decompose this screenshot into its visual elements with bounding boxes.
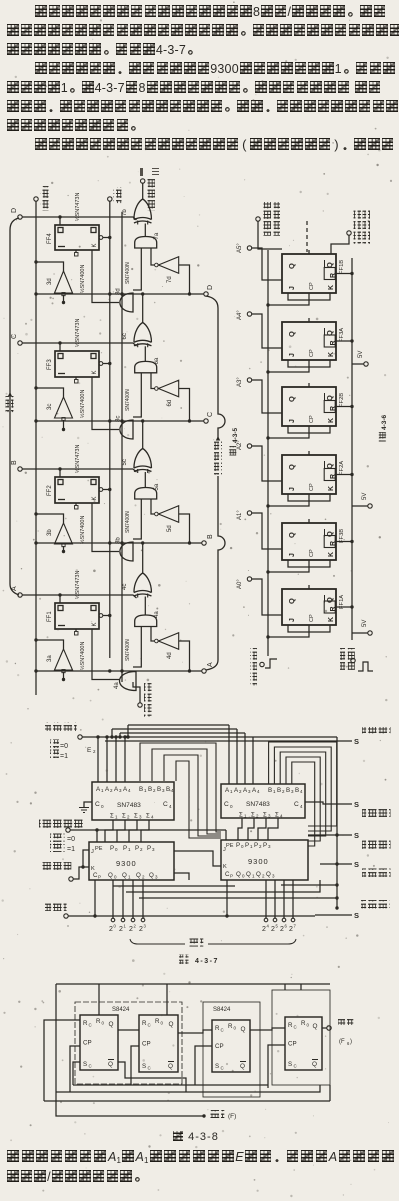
wire from upper-left terminal [258, 221, 282, 249]
svg-text:E: E [87, 747, 92, 754]
svg-text:S: S [354, 737, 359, 746]
nand gate 8d [120, 293, 133, 312]
reset waveform symbol [358, 662, 373, 671]
wire and-to-xor [144, 224, 146, 237]
svg-text:B: B [157, 786, 161, 793]
wire FF2A J K pins [288, 494, 330, 501]
svg-text:B: B [207, 534, 214, 539]
svg-text:Q: Q [149, 872, 154, 879]
nand gate 8c [120, 420, 133, 439]
output bus bracket 输出 [10, 218, 19, 595]
flip-flop FF1 [55, 603, 99, 629]
svg-text:2: 2 [271, 926, 275, 933]
svg-text:Q: Q [241, 1026, 246, 1033]
svg-text:SN7400N: SN7400N [125, 639, 131, 661]
svg-text:PE: PE [226, 843, 234, 849]
svg-text:0: 0 [161, 1021, 164, 1026]
wire and gate left input [133, 499, 141, 539]
wire input 3 right circuit [252, 446, 283, 481]
svg-text:C: C [294, 1064, 297, 1069]
5V terminal 3 [368, 631, 372, 635]
svg-text:SN7400N: SN7400N [125, 262, 131, 284]
svg-text:P: P [254, 842, 258, 849]
terminal 控制加减 [45, 723, 77, 732]
svg-text:4a: 4a [154, 611, 160, 618]
svg-text:R: R [330, 273, 337, 278]
wire inverter 7d input [151, 248, 155, 265]
inverter 3d [55, 271, 73, 293]
output wire A [36, 670, 202, 672]
wire and-to-xor [144, 472, 146, 488]
svg-text:1: 1 [230, 789, 233, 794]
reset waveform terminal [351, 658, 355, 662]
svg-text:Q: Q [287, 464, 296, 470]
svg-text:S: S [288, 1061, 292, 1068]
svg-text:1: 1 [250, 844, 253, 849]
svg-text:C: C [294, 1025, 297, 1030]
label 选位信出 on bus [212, 440, 222, 476]
clock waveform terminal [260, 662, 264, 666]
svg-text:CP: CP [142, 1041, 151, 1048]
svg-text:Q: Q [246, 871, 251, 878]
and gate 5a [135, 488, 157, 500]
flip-flop cell 3 S8424 [212, 1020, 250, 1072]
svg-text:Σ: Σ [146, 813, 150, 820]
label 接下一级 5 [361, 900, 390, 909]
svg-text:4a: 4a [114, 682, 120, 689]
svg-text:Q: Q [287, 331, 296, 337]
svg-text:K: K [328, 418, 335, 423]
svg-text:Σ: Σ [239, 812, 243, 819]
svg-text:FF3: FF3 [47, 359, 53, 370]
svg-text:2: 2 [139, 926, 143, 933]
wire FF1A R pin to 5V rail [336, 606, 352, 608]
svg-text:B: B [268, 787, 272, 794]
wire cp chain left [70, 1046, 80, 1092]
svg-text:=0: =0 [60, 743, 68, 750]
svg-text:2: 2 [289, 926, 293, 933]
svg-text:6c: 6c [122, 333, 128, 339]
svg-text:FF2A: FF2A [339, 461, 345, 475]
svg-text:2: 2 [239, 789, 242, 794]
svg-text:K: K [328, 617, 335, 622]
gate column rail wire [121, 212, 123, 682]
svg-text:Q: Q [122, 872, 127, 879]
svg-text:R: R [330, 541, 337, 546]
output drops right [265, 880, 267, 918]
wire input B [22, 469, 137, 472]
wire S2 carry [305, 802, 352, 804]
svg-text:5d: 5d [167, 525, 173, 532]
wire inverter base [63, 420, 65, 430]
svg-text:A: A [11, 586, 18, 591]
svg-text:2: 2 [282, 789, 285, 794]
svg-text:CP: CP [309, 483, 315, 491]
wire FF FF2 K feedback [92, 503, 119, 552]
flip-flop FF4 Qbar bubble [99, 236, 103, 240]
svg-text:B: B [277, 787, 281, 794]
svg-text:1: 1 [124, 924, 127, 929]
caption 图 4-3-5 [228, 446, 238, 456]
svg-text:6d: 6d [167, 400, 173, 407]
terminal upper-left 至下级加法输入端 [256, 217, 260, 221]
svg-text:K: K [92, 496, 98, 500]
inverter 6d [158, 380, 178, 397]
caption 图 4-3-7 [179, 955, 189, 965]
inverter 4d [158, 633, 178, 650]
wire FF2B R pin to 5V rail [336, 406, 352, 408]
svg-text:4: 4 [169, 804, 172, 809]
svg-text:½SN7400N: ½SN7400N [79, 390, 86, 418]
svg-text:(F): (F) [228, 1113, 236, 1120]
terminal 信号输入 [42, 862, 71, 871]
wire S4 [320, 863, 352, 865]
svg-text:PE: PE [95, 846, 103, 852]
svg-text:A4°: A4° [237, 310, 243, 320]
wire inverter base [63, 672, 65, 680]
inverter 7d [158, 257, 178, 274]
label 输出 (F6) [338, 1017, 353, 1025]
svg-text:J: J [223, 847, 226, 853]
svg-text:C: C [207, 412, 214, 417]
svg-text:S: S [354, 800, 359, 809]
wire sc bottoms [73, 1062, 80, 1085]
xor gate 6c [134, 323, 152, 346]
wire bottom run 2 [56, 1085, 320, 1092]
wire FF FF3 K feedback [92, 377, 119, 430]
wire under-register runs [113, 885, 235, 887]
wire inverter 6d output [179, 389, 190, 422]
svg-text:3d: 3d [47, 278, 53, 285]
wire top run bottom circuit [56, 983, 330, 985]
wire input 2 right circuit [252, 380, 283, 413]
svg-text:K: K [328, 285, 335, 290]
wire FF2B J K pins [288, 426, 330, 433]
svg-text:0: 0 [114, 924, 117, 929]
input terminal 5 right circuit [247, 577, 251, 581]
svg-text:CP: CP [83, 1040, 92, 1047]
binary input terminal 二进输入 [138, 703, 142, 707]
output brace 输出 [130, 939, 185, 944]
wire from upper-right terminal [331, 235, 349, 254]
wire FF FF4 K feedback [92, 250, 119, 303]
wire S3 [308, 834, 352, 836]
wire J K bracket [83, 850, 89, 867]
svg-text:5c: 5c [122, 459, 128, 465]
svg-text:4: 4 [267, 924, 270, 929]
svg-text:5a: 5a [154, 483, 160, 490]
wire and gate left input [133, 373, 141, 417]
svg-text:P: P [236, 842, 240, 849]
wire FF3A R pin to 5V rail [336, 340, 352, 342]
5V terminal 1 [364, 362, 368, 366]
svg-text:FF3A: FF3A [339, 328, 345, 342]
svg-text:Σ: Σ [251, 812, 255, 819]
wire maze right nested [269, 742, 337, 826]
svg-text:R: R [142, 1020, 147, 1027]
svg-text:CP: CP [215, 1043, 224, 1050]
wire xor output [142, 543, 144, 573]
package box S8424 first (dashed) [75, 1002, 182, 1084]
wire and gate left input [133, 627, 141, 668]
svg-text:Q: Q [236, 871, 241, 878]
svg-text:R: R [301, 1020, 306, 1027]
svg-text:): ) [350, 1039, 352, 1045]
svg-text:Q: Q [240, 1063, 245, 1070]
svg-text:½SN7473N: ½SN7473N [74, 319, 81, 347]
wire input C [22, 343, 137, 346]
right bus vertical [336, 746, 338, 908]
svg-text:K: K [328, 486, 335, 491]
svg-text:P: P [110, 845, 114, 852]
svg-text:1: 1 [128, 847, 131, 852]
svg-text:2: 2 [109, 926, 113, 933]
svg-text:FF2B: FF2B [339, 393, 345, 407]
wire and-to-xor [144, 346, 146, 361]
nand gate 8b [120, 542, 133, 561]
inverter 3c [55, 397, 73, 418]
svg-text:1: 1 [144, 788, 147, 793]
svg-text:CP: CP [309, 415, 315, 423]
ground symbol [84, 802, 92, 807]
svg-text:3: 3 [268, 844, 271, 849]
svg-text:3: 3 [162, 788, 165, 793]
wire cp cell3 [195, 1046, 212, 1085]
wire left outer [44, 1020, 80, 1101]
svg-text:A0°: A0° [237, 579, 243, 589]
svg-text:S: S [215, 1063, 219, 1070]
svg-text:C: C [224, 801, 229, 808]
wire xor output [142, 183, 144, 199]
wire bottom run 1 [73, 1084, 268, 1086]
wire clock stub [36, 514, 64, 523]
wire FF1B CP pin [268, 293, 309, 305]
svg-text:J: J [289, 487, 296, 491]
svg-text:4d: 4d [167, 652, 173, 659]
svg-text:R: R [228, 1023, 233, 1030]
svg-text:K: K [91, 866, 95, 872]
output wire B [36, 542, 202, 544]
wire clock riser left [94, 880, 96, 916]
svg-text:3: 3 [139, 815, 142, 820]
flip-flop FF1A [282, 589, 336, 625]
svg-text:3: 3 [248, 789, 251, 794]
wire input 4 right circuit [252, 513, 283, 549]
wire FF2A CP pin [268, 494, 309, 506]
svg-text:5V: 5V [362, 620, 368, 627]
svg-text:R: R [330, 406, 337, 411]
svg-text:0: 0 [241, 844, 244, 849]
svg-text:C: C [89, 1023, 92, 1028]
terminal 钟脉冲 [45, 903, 67, 912]
wire input D [22, 217, 60, 225]
output wire C [36, 420, 204, 422]
svg-text:C: C [221, 1066, 224, 1071]
wire cp cell4 [268, 1045, 285, 1088]
svg-text:=1: =1 [67, 846, 75, 853]
svg-text:B: B [148, 786, 152, 793]
svg-text:K: K [328, 552, 335, 557]
svg-text:9300: 9300 [116, 859, 137, 868]
svg-text:=0: =0 [67, 836, 75, 843]
svg-text:4-3-5: 4-3-5 [232, 427, 239, 443]
flip-flop FF3A [282, 322, 336, 360]
flip-flop FF1B [282, 254, 336, 293]
svg-text:P: P [245, 842, 249, 849]
svg-text:½SN7400N: ½SN7400N [79, 516, 86, 544]
svg-text:9300: 9300 [248, 857, 269, 866]
svg-text:3b: 3b [47, 529, 53, 536]
svg-text:2: 2 [142, 875, 145, 880]
label 接下一级 2 [362, 809, 391, 818]
svg-text:FF1: FF1 [47, 611, 53, 622]
svg-text:J: J [289, 618, 296, 622]
svg-text:1: 1 [115, 815, 118, 820]
svg-text:2: 2 [119, 926, 123, 933]
svg-text:C: C [294, 801, 299, 808]
and gate 7a [135, 237, 157, 249]
svg-text:1: 1 [252, 874, 255, 879]
svg-text:3a: 3a [47, 655, 53, 662]
clear input terminal 清除 [108, 197, 112, 201]
svg-text:5V: 5V [358, 351, 364, 358]
svg-text:Q: Q [312, 1061, 317, 1068]
svg-text:K: K [92, 622, 98, 626]
svg-text:0: 0 [102, 1021, 105, 1026]
svg-text:2: 2 [127, 815, 130, 820]
input terminal D [18, 215, 22, 219]
svg-text:CP: CP [309, 614, 315, 622]
svg-text:3: 3 [272, 874, 275, 879]
wire maze left nested [140, 743, 221, 832]
svg-text:S8424: S8424 [213, 1007, 231, 1013]
svg-text:0: 0 [114, 875, 117, 880]
svg-text:½SN7473N: ½SN7473N [74, 571, 81, 599]
svg-text:J: J [289, 353, 296, 357]
svg-text:P: P [135, 845, 139, 852]
wire input 1 right circuit [252, 314, 283, 348]
output wire D [36, 293, 204, 295]
svg-text:5: 5 [276, 924, 279, 929]
wire clock stub [36, 388, 64, 397]
svg-text:R: R [330, 474, 337, 479]
svg-text:C: C [148, 1023, 151, 1028]
input terminal A [18, 593, 22, 597]
wire binary input [133, 682, 140, 703]
svg-text:Σ: Σ [275, 812, 279, 819]
wire q1 to r2 [118, 1029, 139, 1031]
input terminal 2 right circuit [247, 378, 251, 382]
svg-text:A3°: A3° [237, 377, 243, 387]
wire input F [56, 1092, 204, 1116]
inverter 3a [55, 649, 73, 670]
wire FF FF1 K feedback [92, 629, 119, 680]
svg-text:1: 1 [101, 788, 104, 793]
svg-text:7a: 7a [154, 232, 160, 239]
svg-text:SN7483: SN7483 [117, 802, 141, 809]
svg-text:SN7400N: SN7400N [125, 511, 131, 533]
wire FF1A J K pins [288, 625, 330, 632]
svg-text:C: C [95, 801, 100, 808]
label 减=1 [50, 750, 59, 759]
svg-text:J: J [289, 419, 296, 423]
wire inverter 4d output [179, 641, 190, 671]
svg-text:CP: CP [309, 549, 315, 557]
wire input 0 right circuit [252, 248, 283, 280]
svg-text:½SN7473N: ½SN7473N [74, 445, 81, 473]
svg-text:R: R [330, 606, 337, 611]
output drops left [112, 880, 114, 918]
svg-text:Q: Q [266, 871, 271, 878]
svg-text:P: P [263, 842, 267, 849]
svg-text:S: S [83, 1061, 87, 1068]
wire FF3B J K pins [288, 560, 330, 567]
svg-text:3: 3 [155, 875, 158, 880]
svg-text:P: P [147, 845, 151, 852]
wire input A [22, 595, 137, 598]
wire output Q4 [322, 1027, 327, 1029]
5V rail right circuit [351, 258, 353, 640]
wire xor output [142, 294, 144, 323]
wire inverter 6d input [151, 373, 155, 389]
wire inverter 5d output [179, 514, 190, 543]
label 复位脉冲输入 [340, 648, 347, 670]
nand gate 4a [120, 672, 137, 691]
svg-text:B: B [139, 786, 143, 793]
svg-text:0: 0 [101, 804, 104, 809]
wire sigma to register left [105, 820, 113, 842]
label 移位=1 [50, 844, 65, 853]
svg-text:C: C [148, 1066, 151, 1071]
top bus wire 1 [82, 736, 337, 738]
svg-text:0: 0 [307, 1023, 310, 1028]
svg-text:J: J [289, 553, 296, 557]
wire input 5 right circuit [252, 579, 283, 615]
svg-text:C: C [11, 334, 18, 339]
svg-text:S: S [354, 860, 359, 869]
flip-flop cell 1 S8424 [80, 1015, 118, 1070]
wire FF2A R pin to 5V rail [336, 474, 352, 476]
svg-text:4-3-6: 4-3-6 [381, 414, 388, 430]
wire clock riser right [226, 880, 228, 916]
svg-text:P: P [98, 875, 101, 880]
input terminal 0 right circuit [247, 246, 251, 250]
svg-text:SN7483: SN7483 [246, 801, 270, 808]
svg-text:Q: Q [287, 598, 296, 604]
svg-text:D: D [11, 208, 18, 213]
flip-flop FF2A [282, 455, 336, 494]
svg-text:2: 2 [134, 924, 137, 929]
svg-text:Q: Q [287, 532, 296, 538]
svg-text:6a: 6a [154, 357, 160, 364]
wire inverter 5d input [151, 499, 155, 514]
svg-text:Σ: Σ [134, 813, 138, 820]
svg-text:½SN7400N: ½SN7400N [79, 265, 86, 293]
svg-text:S: S [354, 831, 359, 840]
svg-text:B: B [11, 460, 18, 465]
svg-text:3: 3 [291, 789, 294, 794]
svg-text:Q: Q [287, 396, 296, 402]
svg-text:R: R [83, 1020, 88, 1027]
svg-text:4c: 4c [122, 584, 128, 590]
package box third [272, 990, 330, 1085]
svg-text:Σ: Σ [263, 812, 267, 819]
wire A-pin drops left adder [97, 737, 99, 782]
flip-flop FF3 [55, 351, 99, 377]
svg-text:2: 2 [129, 926, 133, 933]
wire FF1B R pin to 5V rail [336, 273, 352, 275]
svg-text:S: S [354, 911, 359, 920]
